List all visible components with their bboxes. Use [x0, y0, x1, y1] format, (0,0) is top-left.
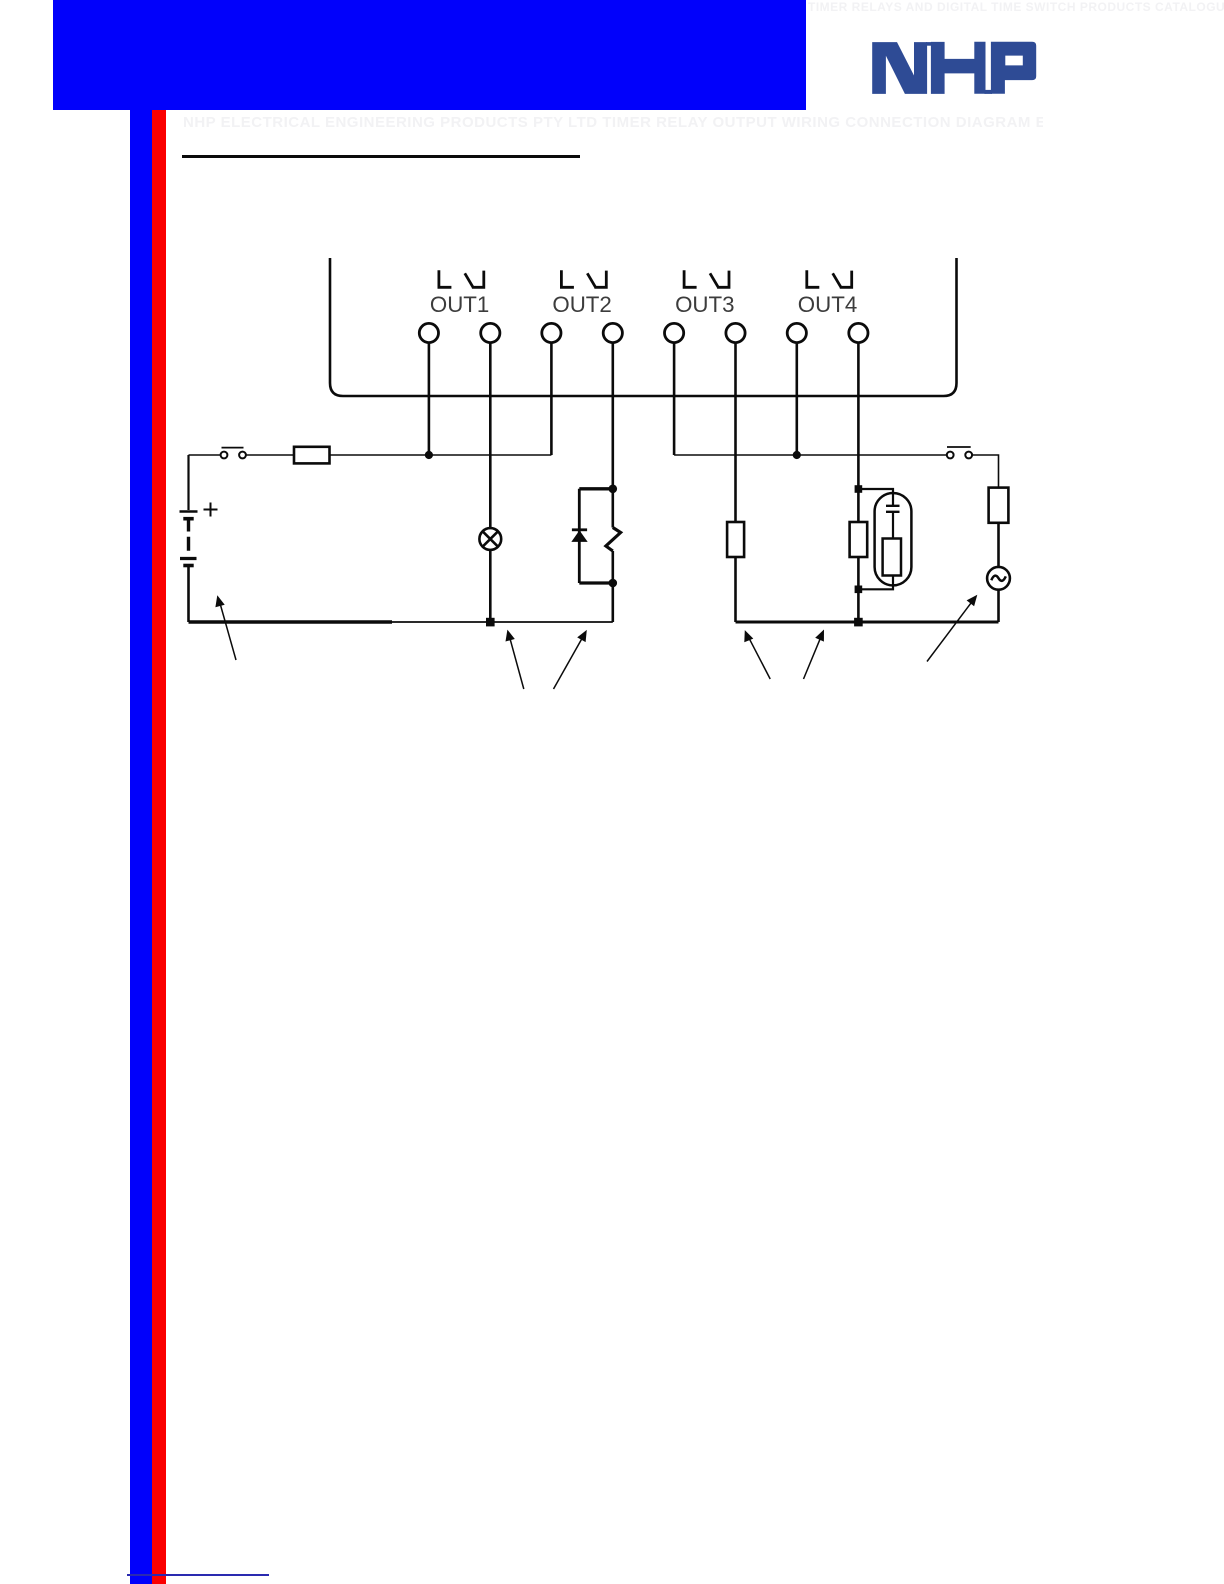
terminal OUT4 pin b: [849, 323, 868, 342]
left red sidebar: [152, 110, 166, 1584]
wire fuse to AC source: [997, 523, 1000, 567]
header bar: [53, 0, 806, 110]
terminal OUT4 pin a: [787, 323, 806, 342]
switch S2 throw: [965, 452, 972, 459]
ghost top-right text: [808, 0, 1224, 14]
title underline: [182, 155, 580, 158]
switch S2 pole: [947, 452, 954, 459]
wire AC source down: [997, 590, 1000, 622]
NHP logo: [871, 41, 1038, 95]
wire OUT4a down: [795, 343, 798, 455]
wire OUT3b down: [734, 343, 737, 522]
wire OUT2a down: [550, 343, 553, 455]
wire OUT3b lower: [734, 557, 737, 622]
coil zigzag OUT2 load: [606, 528, 621, 552]
terminal circles: [419, 323, 868, 342]
junction node OUT4a: [793, 451, 801, 459]
resistive load OUT3: [727, 522, 744, 557]
terminal OUT1 pin a: [419, 323, 438, 342]
discharge lamp capsule: [875, 493, 912, 585]
battery BT1: [180, 455, 198, 622]
junction node OUT4 bottom wire: [854, 618, 863, 627]
junction node OUT1a: [425, 451, 433, 459]
diode D1: [572, 528, 587, 531]
junction node OUT2 branch bottom: [609, 579, 618, 588]
left circuit top wire: [189, 454, 552, 456]
arrow to resistive load: [744, 630, 770, 679]
svg-text:OUT4: OUT4: [798, 292, 857, 317]
terminal OUT3 pin a: [665, 323, 684, 342]
junction node OUT2 branch top: [609, 485, 618, 494]
battery plus sign: [204, 503, 218, 517]
switch S1 pole: [221, 452, 228, 459]
svg-text:OUT2: OUT2: [552, 292, 611, 317]
wire OUT2b down: [611, 343, 614, 528]
wire OUT4b down: [857, 343, 860, 522]
arrow to coil load: [554, 630, 587, 689]
AC source G1: [987, 567, 1010, 590]
starter box inside lamp: [883, 539, 901, 576]
switch S1 throw: [239, 452, 246, 459]
diode branch OUT2 (freewheel diode): [579, 489, 613, 583]
discharge lamp branch wires: [858, 489, 893, 589]
switch S2 contact bar: [947, 446, 971, 448]
fuse F2: [989, 488, 1009, 523]
ballast resistor OUT4: [850, 522, 868, 557]
svg-text:OUT3: OUT3: [675, 292, 734, 317]
terminal OUT2 pin b: [603, 323, 622, 342]
bottom wire left circuit thin part: [390, 621, 613, 623]
wire OUT2b lower: [611, 551, 614, 622]
junction node OUT4 branch bottom: [855, 586, 863, 594]
fuse F1: [294, 447, 330, 464]
junction node lamp bottom: [486, 618, 495, 627]
relay contact OUT2: [561, 270, 606, 287]
device outline: [330, 258, 957, 396]
wire OUT3a down: [673, 343, 676, 455]
right circuit top wire: [674, 455, 998, 488]
bottom wire right circuit: [736, 621, 999, 624]
junction node OUT4 branch top: [855, 485, 863, 493]
svg-text:OUT1: OUT1: [430, 292, 489, 317]
arrow to lamp load: [506, 630, 524, 689]
relay contact OUT1: [439, 270, 484, 287]
terminal OUT1 pin b: [481, 323, 500, 342]
lamp indicator OUT1 load: [479, 528, 501, 550]
left blue sidebar: [130, 110, 152, 1584]
capacitor inside lamp: [886, 506, 900, 512]
wire OUT1a down: [428, 343, 431, 455]
arrow to ballast load: [804, 630, 825, 680]
terminal OUT2 pin a: [542, 323, 561, 342]
wire OUT1b down through lamp: [489, 343, 492, 622]
arrow to AC source: [927, 595, 977, 662]
terminal OUT3 pin b: [726, 323, 745, 342]
arrow to battery circuit: [215, 595, 236, 660]
bottom footer line: [127, 1574, 269, 1576]
wire OUT4 box lower: [857, 557, 860, 622]
switch S1 contact bar: [222, 447, 244, 449]
ghost header text: [183, 114, 1043, 131]
relay contact OUT4: [807, 270, 852, 287]
bottom wire left circuit thick part: [189, 620, 393, 623]
relay contact OUT3: [684, 270, 729, 287]
